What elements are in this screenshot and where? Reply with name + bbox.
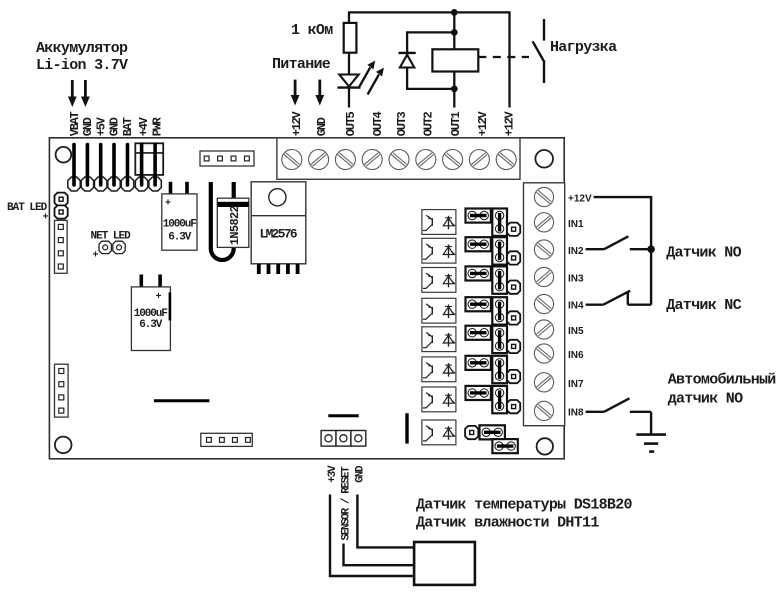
trace line left bbox=[154, 399, 210, 402]
svg-text:Li-ion 3.7V: Li-ion 3.7V bbox=[36, 57, 128, 74]
sensor box DS18B20/DHT11 bbox=[414, 542, 475, 585]
screw terminal X2-1 +12V bbox=[530, 183, 557, 210]
mounting hole top-right bbox=[535, 150, 553, 168]
screw terminal X1-8 +12Va bbox=[465, 145, 493, 173]
flyback diode D3 bbox=[399, 53, 416, 68]
jumper JP5 horizontal bbox=[466, 326, 491, 340]
jumper JP1 horizontal bbox=[466, 209, 491, 223]
switch sensor NC (IN4) bbox=[586, 291, 652, 305]
trace line middle bbox=[328, 414, 358, 417]
wire GND to sensor bbox=[357, 495, 414, 548]
jumper JP4 vertical bbox=[492, 297, 507, 324]
screw terminal X1-5 OUT3 bbox=[385, 145, 413, 173]
svg-text:LM2576: LM2576 bbox=[260, 226, 297, 241]
optocoupler U6 bbox=[422, 327, 456, 352]
svg-text:GND: GND bbox=[108, 117, 122, 136]
svg-text:OUT1: OUT1 bbox=[449, 111, 463, 136]
capacitor C2 1000uF bbox=[131, 287, 170, 351]
svg-text:OUT4: OUT4 bbox=[371, 111, 385, 136]
BAT LED header pads bbox=[55, 193, 68, 219]
svg-text:6.3V: 6.3V bbox=[168, 231, 192, 243]
relay K1 coil bbox=[432, 49, 478, 71]
pad JP1 bbox=[507, 223, 520, 236]
svg-text:OUT5: OUT5 bbox=[344, 111, 358, 136]
jumper JP7 vertical bbox=[492, 386, 507, 413]
svg-text:NET LED: NET LED bbox=[91, 230, 132, 242]
svg-text:Датчик температуры DS18B20: Датчик температуры DS18B20 bbox=[416, 497, 633, 514]
svg-text:Датчик NC: Датчик NC bbox=[666, 297, 741, 314]
svg-text:IN6: IN6 bbox=[568, 350, 584, 361]
pad JP6 bbox=[507, 370, 520, 383]
screw terminal X1-1 +12V bbox=[278, 145, 306, 173]
svg-text:VBAT: VBAT bbox=[68, 111, 82, 136]
switch car sensor (IN8) bbox=[586, 398, 652, 412]
optocoupler U2 bbox=[422, 210, 456, 235]
trace line vertical bbox=[405, 413, 408, 443]
NET LED pads bbox=[99, 241, 125, 253]
switch sensor NO (IN2) bbox=[586, 236, 652, 249]
screw terminal X2-8 IN7 bbox=[530, 369, 557, 396]
svg-text:+12V: +12V bbox=[476, 110, 490, 136]
mounting hole bottom-left bbox=[55, 437, 72, 454]
jumper JP4 horizontal bbox=[466, 297, 491, 311]
svg-text:BAT LED: BAT LED bbox=[7, 202, 48, 214]
pad JP8 bbox=[465, 426, 478, 439]
optocoupler U9 bbox=[422, 420, 456, 445]
power GND arrow bbox=[315, 80, 324, 106]
capacitor C1 1000uF bbox=[162, 194, 197, 250]
regulator U1 LM2576 bbox=[251, 182, 306, 264]
jumper JP3 horizontal bbox=[466, 266, 491, 280]
wire LED to OUT5 bbox=[348, 88, 350, 108]
svg-text:+: + bbox=[165, 199, 171, 210]
svg-text:SENSOR / RESET: SENSOR / RESET bbox=[341, 466, 353, 541]
junction node top bbox=[451, 9, 458, 16]
PCB board outline bbox=[49, 138, 564, 459]
pad JP4 bbox=[507, 311, 520, 324]
svg-text:OUT3: OUT3 bbox=[395, 111, 409, 136]
jumper block on +4V/PWR pins bbox=[135, 143, 163, 175]
svg-text:IN8: IN8 bbox=[568, 407, 584, 418]
jumper JP8 lower bbox=[492, 439, 517, 453]
svg-text:IN1: IN1 bbox=[568, 219, 584, 230]
pad JP5 bbox=[507, 340, 520, 353]
svg-text:+: + bbox=[156, 292, 162, 303]
mounting hole top-left bbox=[56, 147, 72, 163]
left header 4-pin upper bbox=[55, 220, 68, 273]
jumper JP8 upper bbox=[480, 425, 505, 439]
svg-text:IN7: IN7 bbox=[568, 379, 584, 390]
jumper JP6 horizontal bbox=[466, 356, 491, 370]
jumper JP2 vertical bbox=[492, 237, 507, 264]
svg-text:6.3V: 6.3V bbox=[139, 319, 163, 331]
junction node relay bottom bbox=[451, 86, 458, 93]
svg-text:IN4: IN4 bbox=[568, 301, 584, 312]
svg-text:Автомобильный: Автомобильный bbox=[668, 371, 776, 388]
optocoupler U3 bbox=[422, 238, 456, 263]
wire resistor to LED bbox=[348, 53, 350, 75]
optocoupler U8 bbox=[422, 387, 456, 412]
svg-text:Нагрузка: Нагрузка bbox=[550, 39, 617, 56]
svg-text:+12V: +12V bbox=[503, 110, 517, 136]
screw terminal X2-4 IN3 bbox=[530, 263, 557, 290]
LED D2 bbox=[338, 75, 361, 88]
capacitor C1 leads bbox=[171, 182, 188, 195]
screw terminal X2-9 IN8 bbox=[530, 397, 557, 424]
svg-text:Питание: Питание bbox=[272, 56, 331, 73]
diode D1 1N5822 body bbox=[217, 198, 249, 247]
pad JP7 bbox=[507, 400, 520, 413]
screw terminal X2-7 IN6 bbox=[530, 340, 557, 367]
left header 4-pin lower bbox=[55, 364, 69, 417]
screw terminal X1-7 OUT1 bbox=[439, 145, 467, 173]
wire sensor/reset to sensor bbox=[344, 544, 415, 566]
pin header J1 pad row bbox=[68, 177, 161, 191]
svg-text:+4V: +4V bbox=[137, 116, 151, 136]
thick U trace wire bbox=[211, 182, 234, 260]
svg-text:1N5822: 1N5822 bbox=[228, 205, 242, 245]
svg-text:+5V: +5V bbox=[94, 116, 108, 136]
regulator U1 pins bbox=[259, 264, 298, 274]
LED arrows bbox=[359, 61, 384, 95]
pin header J1 pins bbox=[74, 145, 155, 186]
jumper JP7 horizontal bbox=[466, 386, 491, 400]
optocoupler U4 bbox=[422, 268, 456, 293]
svg-text:+12V: +12V bbox=[568, 194, 592, 205]
jumper JP2 horizontal bbox=[466, 237, 491, 251]
load switch S1 bbox=[533, 19, 545, 83]
resistor R1 bbox=[344, 23, 357, 53]
battery GND arrow bbox=[81, 80, 90, 107]
optocoupler U7 bbox=[422, 357, 456, 382]
junction node relay top bbox=[451, 29, 458, 36]
wire top node to relay bbox=[453, 12, 455, 50]
svg-text:BAT: BAT bbox=[121, 117, 135, 136]
pad JP3 bbox=[507, 281, 520, 294]
svg-text:Аккумулятор: Аккумулятор bbox=[36, 40, 128, 57]
jumper JP3 vertical bbox=[492, 266, 507, 293]
svg-text:PWR: PWR bbox=[150, 116, 164, 136]
capacitor C2 leads bbox=[141, 275, 160, 288]
svg-text:GND: GND bbox=[355, 465, 367, 483]
flyback diode loop wire bbox=[407, 32, 454, 89]
svg-text:OUT2: OUT2 bbox=[422, 111, 436, 136]
top +12V wire bbox=[349, 12, 510, 107]
dashed mechanical link bbox=[478, 56, 529, 58]
screw terminal X2-3 IN2 bbox=[530, 236, 557, 263]
screw terminal X2-6 IN5 bbox=[530, 316, 557, 343]
svg-text:IN2: IN2 bbox=[568, 246, 584, 257]
svg-text:IN5: IN5 bbox=[568, 326, 584, 337]
screw terminal X2-5 IN4 bbox=[530, 290, 557, 317]
screw terminal X1-2 GND bbox=[305, 145, 333, 173]
header 4-pin bottom bbox=[201, 433, 253, 446]
mounting hole bottom-right bbox=[537, 438, 553, 454]
svg-text:GND: GND bbox=[81, 117, 95, 136]
sensor connector 3-pin bbox=[321, 431, 366, 447]
pad JP2 bbox=[507, 251, 520, 264]
svg-text:IN3: IN3 bbox=[568, 274, 584, 285]
svg-text:GND: GND bbox=[315, 117, 329, 136]
svg-text:+12V: +12V bbox=[290, 110, 304, 136]
screw terminal X1-3 OUT5 bbox=[331, 145, 359, 173]
wire relay bottom node bbox=[453, 71, 455, 89]
screw terminal X1-6 OUT2 bbox=[412, 145, 440, 173]
battery VBAT arrow bbox=[68, 80, 77, 107]
svg-text:Датчик NO: Датчик NO bbox=[666, 244, 741, 261]
junction node sensors bbox=[647, 245, 655, 253]
svg-text:1 кОм: 1 кОм bbox=[291, 22, 333, 39]
svg-text:Датчик влажности DHT11: Датчик влажности DHT11 bbox=[416, 515, 599, 532]
screw terminal X2-2 IN1 bbox=[530, 209, 557, 236]
jumper JP5 vertical bbox=[492, 326, 507, 353]
svg-text:1000uF: 1000uF bbox=[163, 219, 197, 231]
svg-text:+: + bbox=[93, 251, 99, 262]
ground symbol bbox=[636, 412, 666, 452]
optocoupler U5 bbox=[422, 298, 456, 323]
jumper JP1 vertical bbox=[492, 209, 507, 236]
svg-text:+: + bbox=[43, 213, 49, 224]
wire relay to OUT1 bbox=[453, 89, 455, 108]
terminal block X1 (top) bbox=[277, 138, 520, 179]
wire +12V to sensors bbox=[594, 197, 652, 305]
svg-text:+3V: +3V bbox=[327, 465, 339, 483]
terminal strip X2 (right side) bbox=[524, 183, 565, 426]
power +12V arrow bbox=[291, 80, 300, 106]
wire +3V to sensor bbox=[330, 495, 414, 577]
svg-text:датчик NO: датчик NO bbox=[668, 390, 743, 407]
screw terminal X1-9 +12Vb bbox=[492, 145, 520, 173]
screw terminal X1-4 OUT4 bbox=[358, 145, 386, 173]
header 4-pin top bbox=[200, 151, 254, 166]
jumper JP6 vertical bbox=[492, 356, 507, 383]
